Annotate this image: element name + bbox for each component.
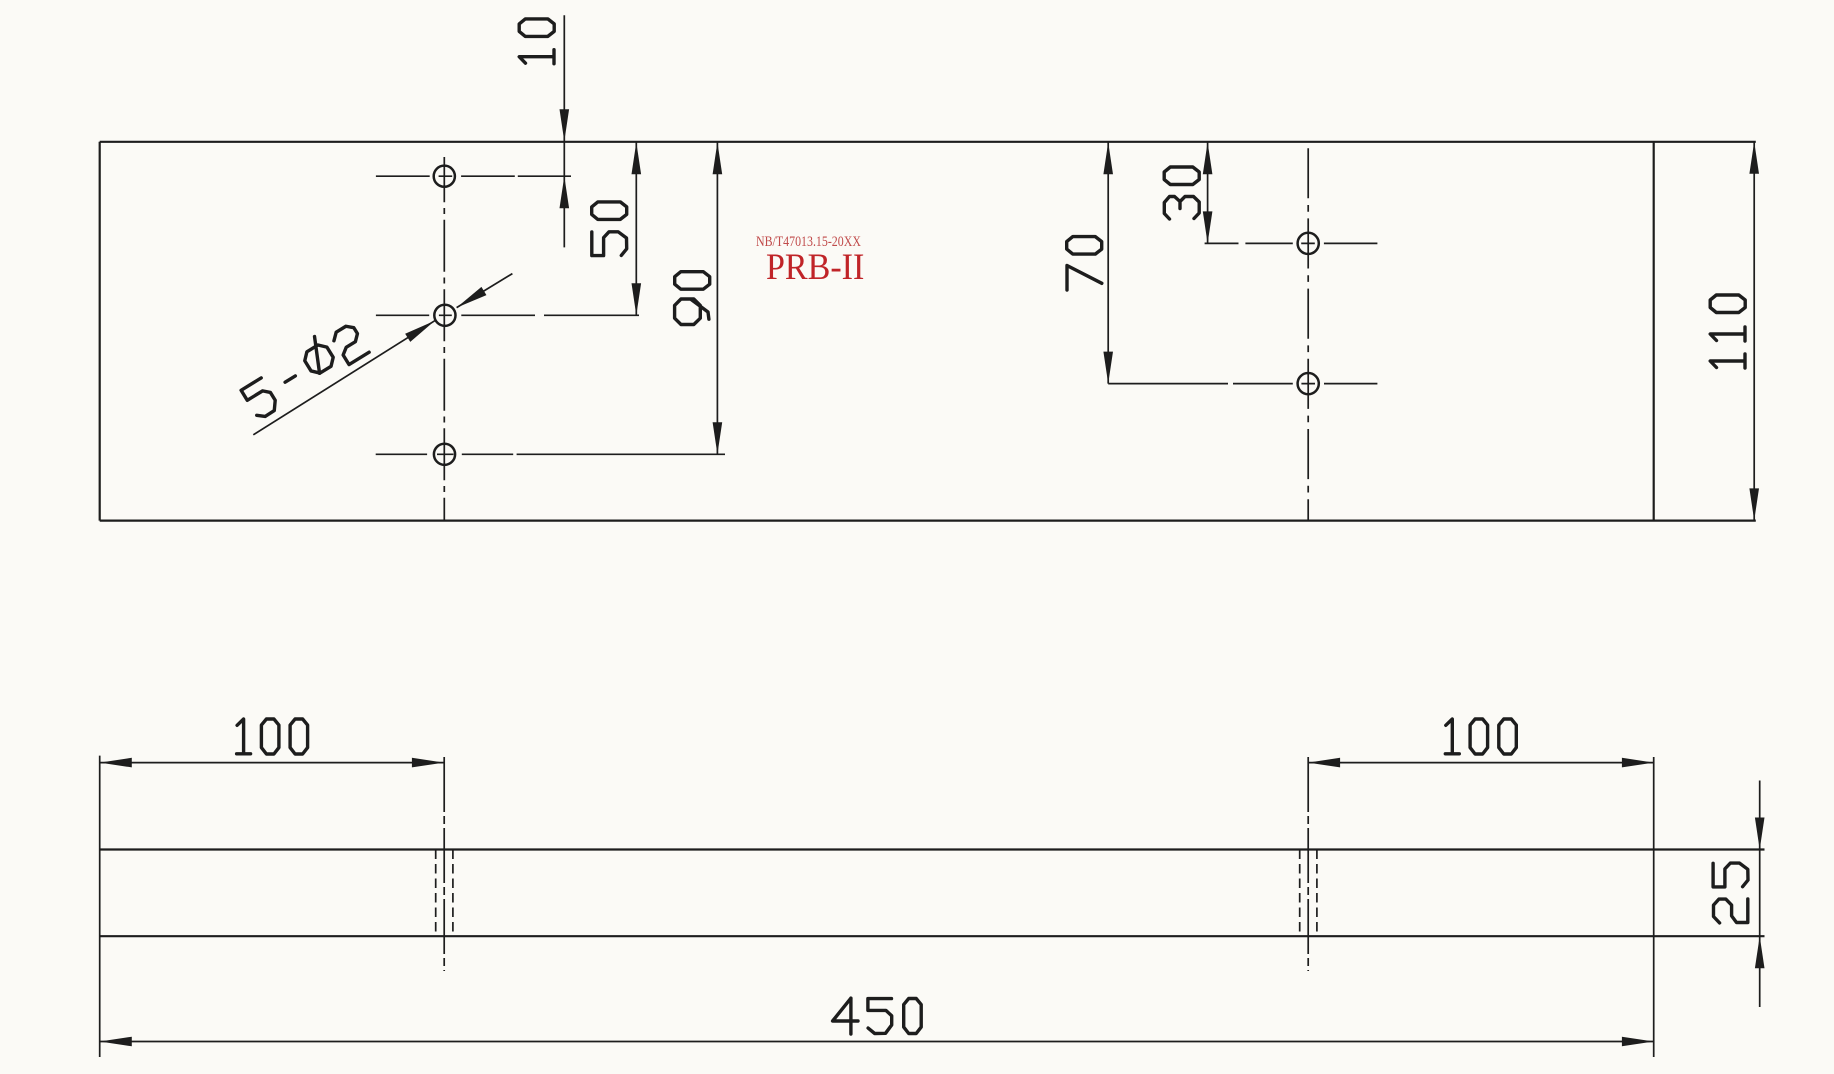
dim line 90 [716,142,718,454]
text 70 [1067,237,1102,290]
hole H1 [434,166,455,187]
dim line 100 right [1308,762,1654,764]
red model text PRB-II [766,249,864,286]
arrow 50 top [632,142,642,174]
dim line 30 [1207,142,1209,243]
arrow 30 top [1203,142,1213,174]
arrow 100R right [1622,758,1654,768]
arrow 50 bottom [632,283,642,315]
arrow 100R left [1308,758,1340,768]
arrow 70 bottom [1103,352,1113,384]
arrow 110 top [1749,142,1759,174]
strip centerline left [443,757,445,971]
arrow leader upper [454,287,486,312]
arrow 450 left [100,1037,132,1047]
dim line 25 [1759,781,1761,1008]
dim line 50 [635,142,637,315]
leader line lower [253,321,434,435]
hidden line right hole a [1299,850,1301,937]
text 10 [519,19,554,64]
dim line 10 [563,15,565,247]
leader line upper [457,274,513,308]
arrow 10 upper [560,109,570,141]
hole H3 [434,444,455,465]
arrow 90 bottom [713,422,723,454]
text 110 [1710,295,1745,368]
centerline H3 horizontal [376,453,725,455]
dim line 110 [1753,142,1755,521]
centerline vertical left holes [443,157,445,521]
text 90 [675,272,710,325]
hole R-lower [1298,373,1319,394]
arrow 100L left [100,758,132,768]
strip bottom edge with 25 extension [100,935,1765,937]
arrow 30 bottom [1203,211,1213,243]
arrow 70 top [1103,142,1113,174]
arrow 110 bottom [1749,488,1759,520]
plate top edge with 110 extension [100,141,1756,143]
strip top edge with 25 extension [100,848,1765,850]
centerline H1 horizontal [376,175,571,177]
centerline R-lower horizontal [1108,383,1377,385]
arrow 90 top [713,142,723,174]
arrow 10 lower [560,176,570,208]
text 5-phi2 leader label [237,316,369,420]
hidden line left hole a [435,850,437,937]
text 25 [1713,863,1748,923]
arrow 450 right [1622,1037,1654,1047]
dim line 70 [1107,142,1109,383]
text 450 [833,998,922,1034]
arrow 100L right [412,758,444,768]
centerline H2 horizontal [376,314,639,316]
hole R-upper [1298,233,1319,254]
plate right edge [1653,142,1655,521]
dim line 450 [100,1041,1654,1043]
plate bottom edge with 110 extension [100,519,1756,521]
extension line right bottom view [1653,757,1655,1057]
extension line left bottom view [99,756,101,1057]
hole H2 [434,305,455,326]
centerline vertical right holes [1307,142,1309,521]
dim line 100 left [100,762,444,764]
arrow leader lower [405,317,437,342]
arrow 25 bottom [1755,936,1765,968]
red standard number text [756,235,861,249]
centerline R-upper horizontal [1205,242,1378,244]
strip centerline right [1307,757,1309,971]
hidden line left hole b [452,850,454,937]
text 30 [1164,167,1199,219]
text 100 left [237,719,308,754]
plate left edge [99,142,101,521]
arrow 25 top [1755,818,1765,850]
text 100 right [1445,719,1516,754]
text 50 [592,202,627,256]
hidden line right hole b [1316,850,1318,937]
